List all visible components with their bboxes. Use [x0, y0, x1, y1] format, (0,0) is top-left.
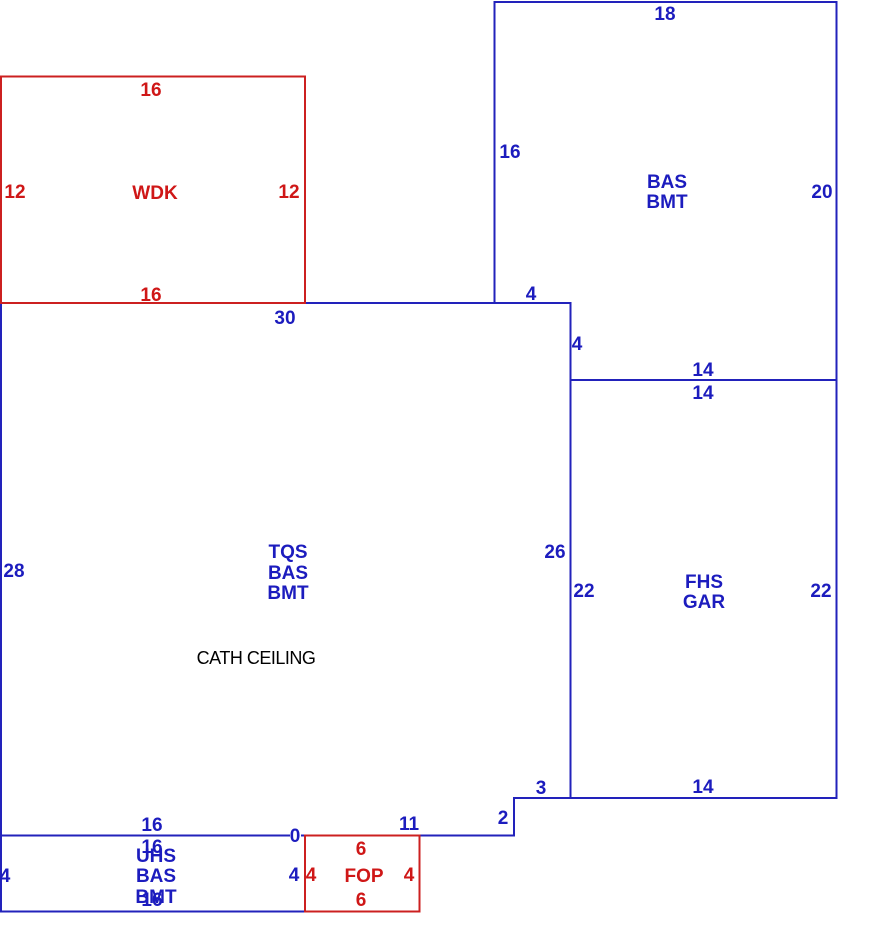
svg-text:4: 4: [404, 865, 415, 886]
svg-text:BAS: BAS: [136, 866, 176, 887]
svg-text:CATH CEILING: CATH CEILING: [197, 648, 316, 668]
wire BAS/FHS divider: [570, 379, 838, 381]
svg-text:FOP: FOP: [344, 866, 383, 887]
wire TQS top edge: [304, 302, 572, 304]
svg-text:2: 2: [498, 808, 509, 829]
wire right edge (BAS BMT + FHS GAR): [836, 1, 838, 799]
svg-text:6: 6: [356, 839, 367, 860]
svg-text:14: 14: [692, 360, 714, 381]
svg-text:BAS: BAS: [647, 172, 687, 193]
svg-text:BMT: BMT: [646, 192, 688, 213]
svg-text:BAS: BAS: [268, 563, 308, 584]
wire UHS right edge: [304, 836, 306, 912]
svg-text:4: 4: [526, 284, 537, 305]
svg-text:11: 11: [399, 814, 420, 835]
svg-text:0: 0: [290, 826, 301, 847]
svg-text:16: 16: [140, 285, 161, 306]
svg-text:UHS: UHS: [136, 846, 176, 867]
wire BAS BMT left edge: [494, 1, 496, 304]
svg-text:WDK: WDK: [132, 183, 178, 204]
svg-text:BMT: BMT: [267, 583, 309, 604]
svg-text:4: 4: [306, 865, 317, 886]
wire TQS right / FHS left edge: [570, 302, 572, 799]
label 0 TQS bottom: [290, 828, 301, 843]
svg-text:16: 16: [141, 815, 162, 836]
wire UHS bottom edge: [0, 911, 306, 913]
svg-text:6: 6: [356, 890, 367, 911]
svg-text:12: 12: [4, 182, 25, 203]
svg-text:28: 28: [3, 561, 24, 582]
wire step vertical: [513, 797, 515, 837]
svg-text:TQS: TQS: [268, 542, 307, 563]
svg-text:12: 12: [278, 182, 299, 203]
svg-text:4: 4: [0, 866, 11, 887]
svg-text:22: 22: [810, 581, 831, 602]
svg-text:FHS: FHS: [685, 572, 723, 593]
svg-text:14: 14: [692, 777, 714, 798]
svg-text:30: 30: [274, 308, 295, 329]
room WDK outline: [1, 77, 305, 304]
room FOP outline: [305, 836, 420, 912]
svg-text:16: 16: [499, 142, 520, 163]
svg-text:18: 18: [654, 4, 675, 25]
svg-text:16: 16: [140, 80, 161, 101]
svg-text:3: 3: [536, 778, 547, 799]
svg-text:14: 14: [692, 383, 714, 404]
svg-text:16: 16: [141, 890, 162, 911]
wire FHS bottom edge: [513, 797, 838, 799]
svg-text:20: 20: [811, 182, 832, 203]
svg-text:GAR: GAR: [683, 592, 726, 613]
wire left edge (TQS + UHS): [0, 302, 2, 913]
svg-text:26: 26: [544, 542, 565, 563]
svg-text:4: 4: [572, 334, 583, 355]
wire BAS BMT top edge: [494, 1, 838, 3]
svg-text:22: 22: [573, 581, 594, 602]
wire TQS bottom edge: [0, 835, 515, 837]
svg-text:4: 4: [289, 865, 300, 886]
